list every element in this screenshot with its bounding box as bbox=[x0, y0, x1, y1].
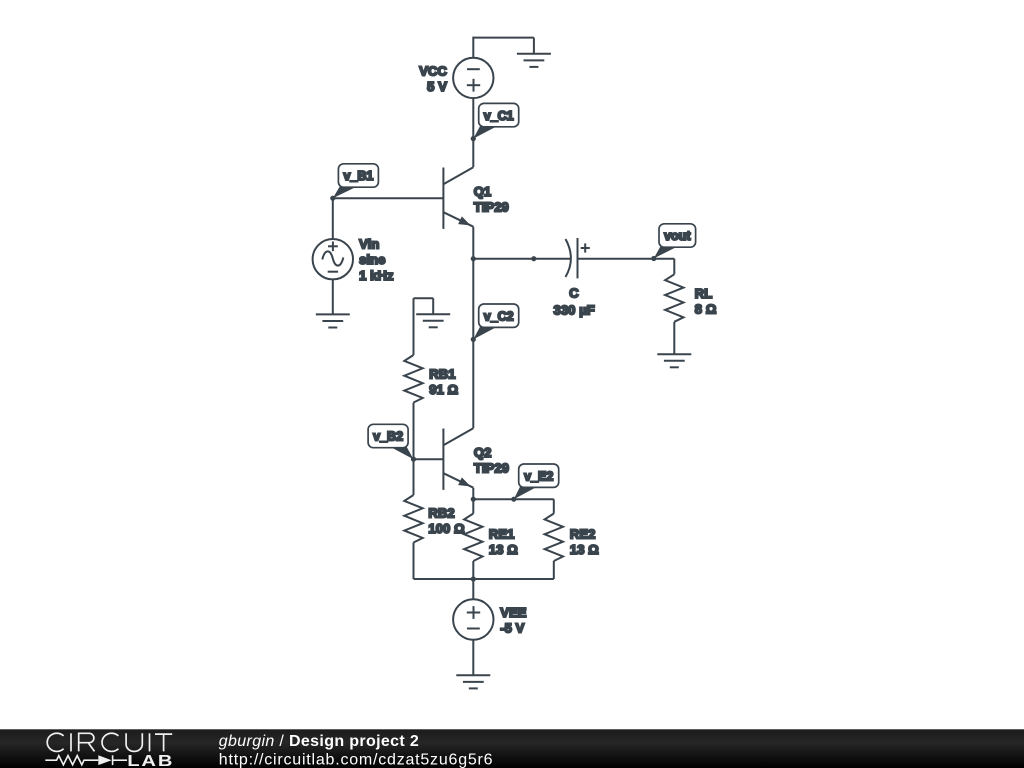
svg-text:13 Ω: 13 Ω bbox=[489, 542, 518, 557]
node v_B1 bbox=[330, 196, 335, 201]
transistor Q2 bbox=[443, 428, 473, 490]
capacitor C bbox=[566, 238, 590, 278]
net flag v_B1 bbox=[333, 164, 379, 198]
svg-text:Vin: Vin bbox=[359, 236, 379, 251]
svg-text:Q1: Q1 bbox=[474, 184, 492, 199]
svg-text:vout: vout bbox=[664, 229, 691, 243]
footer bar bbox=[0, 729, 1024, 768]
node Q1 emitter junction bbox=[471, 256, 476, 261]
wire Q1 emitter to Q2 collector bbox=[472, 259, 474, 429]
wire VCC to Q1 collector bbox=[472, 98, 474, 167]
svg-text:RB1: RB1 bbox=[429, 367, 455, 382]
svg-text:VCC: VCC bbox=[419, 63, 447, 78]
resistor RE1 bbox=[464, 514, 482, 562]
wire bottom row to VEE bbox=[472, 579, 474, 599]
ground top right bbox=[517, 54, 551, 67]
node vout bbox=[651, 256, 656, 261]
wire vout to RL bbox=[673, 259, 675, 275]
resistor RE2 bbox=[545, 514, 563, 562]
wire RB2 top lead bbox=[413, 459, 415, 495]
wire RE1 top lead bbox=[472, 499, 474, 513]
wire bottom row bbox=[414, 578, 554, 580]
svg-text:RL: RL bbox=[695, 286, 713, 301]
wire v_B1 to Vin bbox=[332, 198, 334, 239]
net flag v_C1 bbox=[473, 103, 518, 138]
svg-text:1 kHz: 1 kHz bbox=[359, 268, 394, 283]
resistor RB2 bbox=[404, 495, 422, 543]
svg-text:RE1: RE1 bbox=[489, 526, 515, 541]
svg-text:v_C2: v_C2 bbox=[484, 309, 514, 323]
node capacitor left terminal bbox=[531, 256, 536, 261]
node v_C1 bbox=[471, 136, 476, 141]
resistor RL bbox=[665, 274, 683, 322]
wire VEE to ground bbox=[472, 640, 474, 676]
wire RB1 jog to ground bbox=[432, 298, 434, 314]
voltage source VCC bbox=[453, 58, 493, 98]
CircuitLab logo resistor-diode glyph bbox=[45, 755, 127, 765]
node Q2 emitter bbox=[471, 497, 476, 502]
svg-text:http://circuitlab.com/cdzat5zu: http://circuitlab.com/cdzat5zu6g5r6 bbox=[219, 752, 494, 768]
ground below RL bbox=[657, 354, 691, 367]
svg-text:sine: sine bbox=[359, 252, 385, 267]
wire RE1 bottom lead bbox=[472, 561, 474, 579]
svg-text:v_E2: v_E2 bbox=[524, 469, 553, 483]
voltage source Vin bbox=[313, 239, 353, 279]
svg-text:v_C1: v_C1 bbox=[484, 109, 514, 123]
node bottom row bbox=[471, 576, 476, 581]
wire VCC top horizontal bbox=[473, 37, 534, 39]
svg-text:TIP29: TIP29 bbox=[474, 200, 509, 215]
node v_B2 bbox=[411, 457, 416, 462]
voltage source VEE bbox=[453, 599, 493, 639]
svg-text:v_B1: v_B1 bbox=[343, 169, 373, 183]
svg-text:v_B2: v_B2 bbox=[373, 430, 403, 444]
wire Vin to ground bbox=[332, 279, 334, 314]
net flag v_B2 bbox=[368, 424, 413, 459]
wire Q1 emitter bbox=[472, 227, 474, 259]
svg-text:RE2: RE2 bbox=[570, 526, 596, 541]
svg-text:8 Ω: 8 Ω bbox=[695, 302, 717, 317]
wire RB1 top lead bbox=[413, 298, 415, 355]
resistor RB1 bbox=[404, 355, 422, 403]
svg-text:91 Ω: 91 Ω bbox=[429, 382, 458, 397]
wire emitter row 2 bbox=[473, 498, 554, 500]
wire Q1 base bbox=[333, 197, 444, 199]
svg-text:5 V: 5 V bbox=[427, 79, 447, 94]
wire top rail to ground bbox=[533, 38, 535, 54]
wire Q2 emitter bbox=[472, 488, 474, 500]
wire RE2 bottom lead bbox=[553, 561, 555, 579]
node v_C2 bbox=[471, 337, 476, 342]
svg-text:VEE: VEE bbox=[500, 605, 527, 620]
wire RL to ground bbox=[673, 322, 675, 354]
svg-text:RB2: RB2 bbox=[428, 505, 454, 520]
svg-text:-5 V: -5 V bbox=[500, 621, 524, 636]
svg-text:Q2: Q2 bbox=[474, 445, 492, 460]
CircuitLab logo wordmark bbox=[47, 733, 172, 751]
wire RB1 jog horizontal bbox=[414, 297, 434, 299]
svg-text:13 Ω: 13 Ω bbox=[570, 542, 599, 557]
svg-text:TIP29: TIP29 bbox=[474, 460, 509, 475]
net flag vout bbox=[654, 224, 696, 259]
transistor Q1 bbox=[443, 167, 473, 229]
node v_E2 bbox=[511, 497, 516, 502]
ground below VEE bbox=[456, 675, 490, 688]
ground mid (RB1) bbox=[416, 314, 450, 327]
svg-text:gburgin / Design project 2: gburgin / Design project 2 bbox=[219, 733, 419, 750]
svg-text:C: C bbox=[569, 285, 579, 300]
wire RE2 top lead bbox=[553, 499, 555, 513]
svg-text:100 Ω: 100 Ω bbox=[428, 521, 464, 536]
svg-text:LAB: LAB bbox=[127, 752, 174, 768]
net flag v_E2 bbox=[514, 464, 559, 499]
wire VCC to top rail bbox=[472, 37, 474, 58]
wire RB1 to v_B2 bbox=[413, 403, 415, 460]
wire emitter row to capacitor bbox=[473, 258, 570, 260]
wire capacitor to vout bbox=[578, 258, 675, 260]
wire RB2 bottom lead bbox=[413, 543, 415, 580]
svg-text:330 µF: 330 µF bbox=[554, 302, 595, 317]
wire Q2 base bbox=[414, 458, 444, 460]
ground below Vin bbox=[316, 314, 350, 327]
net flag v_C2 bbox=[473, 304, 518, 339]
